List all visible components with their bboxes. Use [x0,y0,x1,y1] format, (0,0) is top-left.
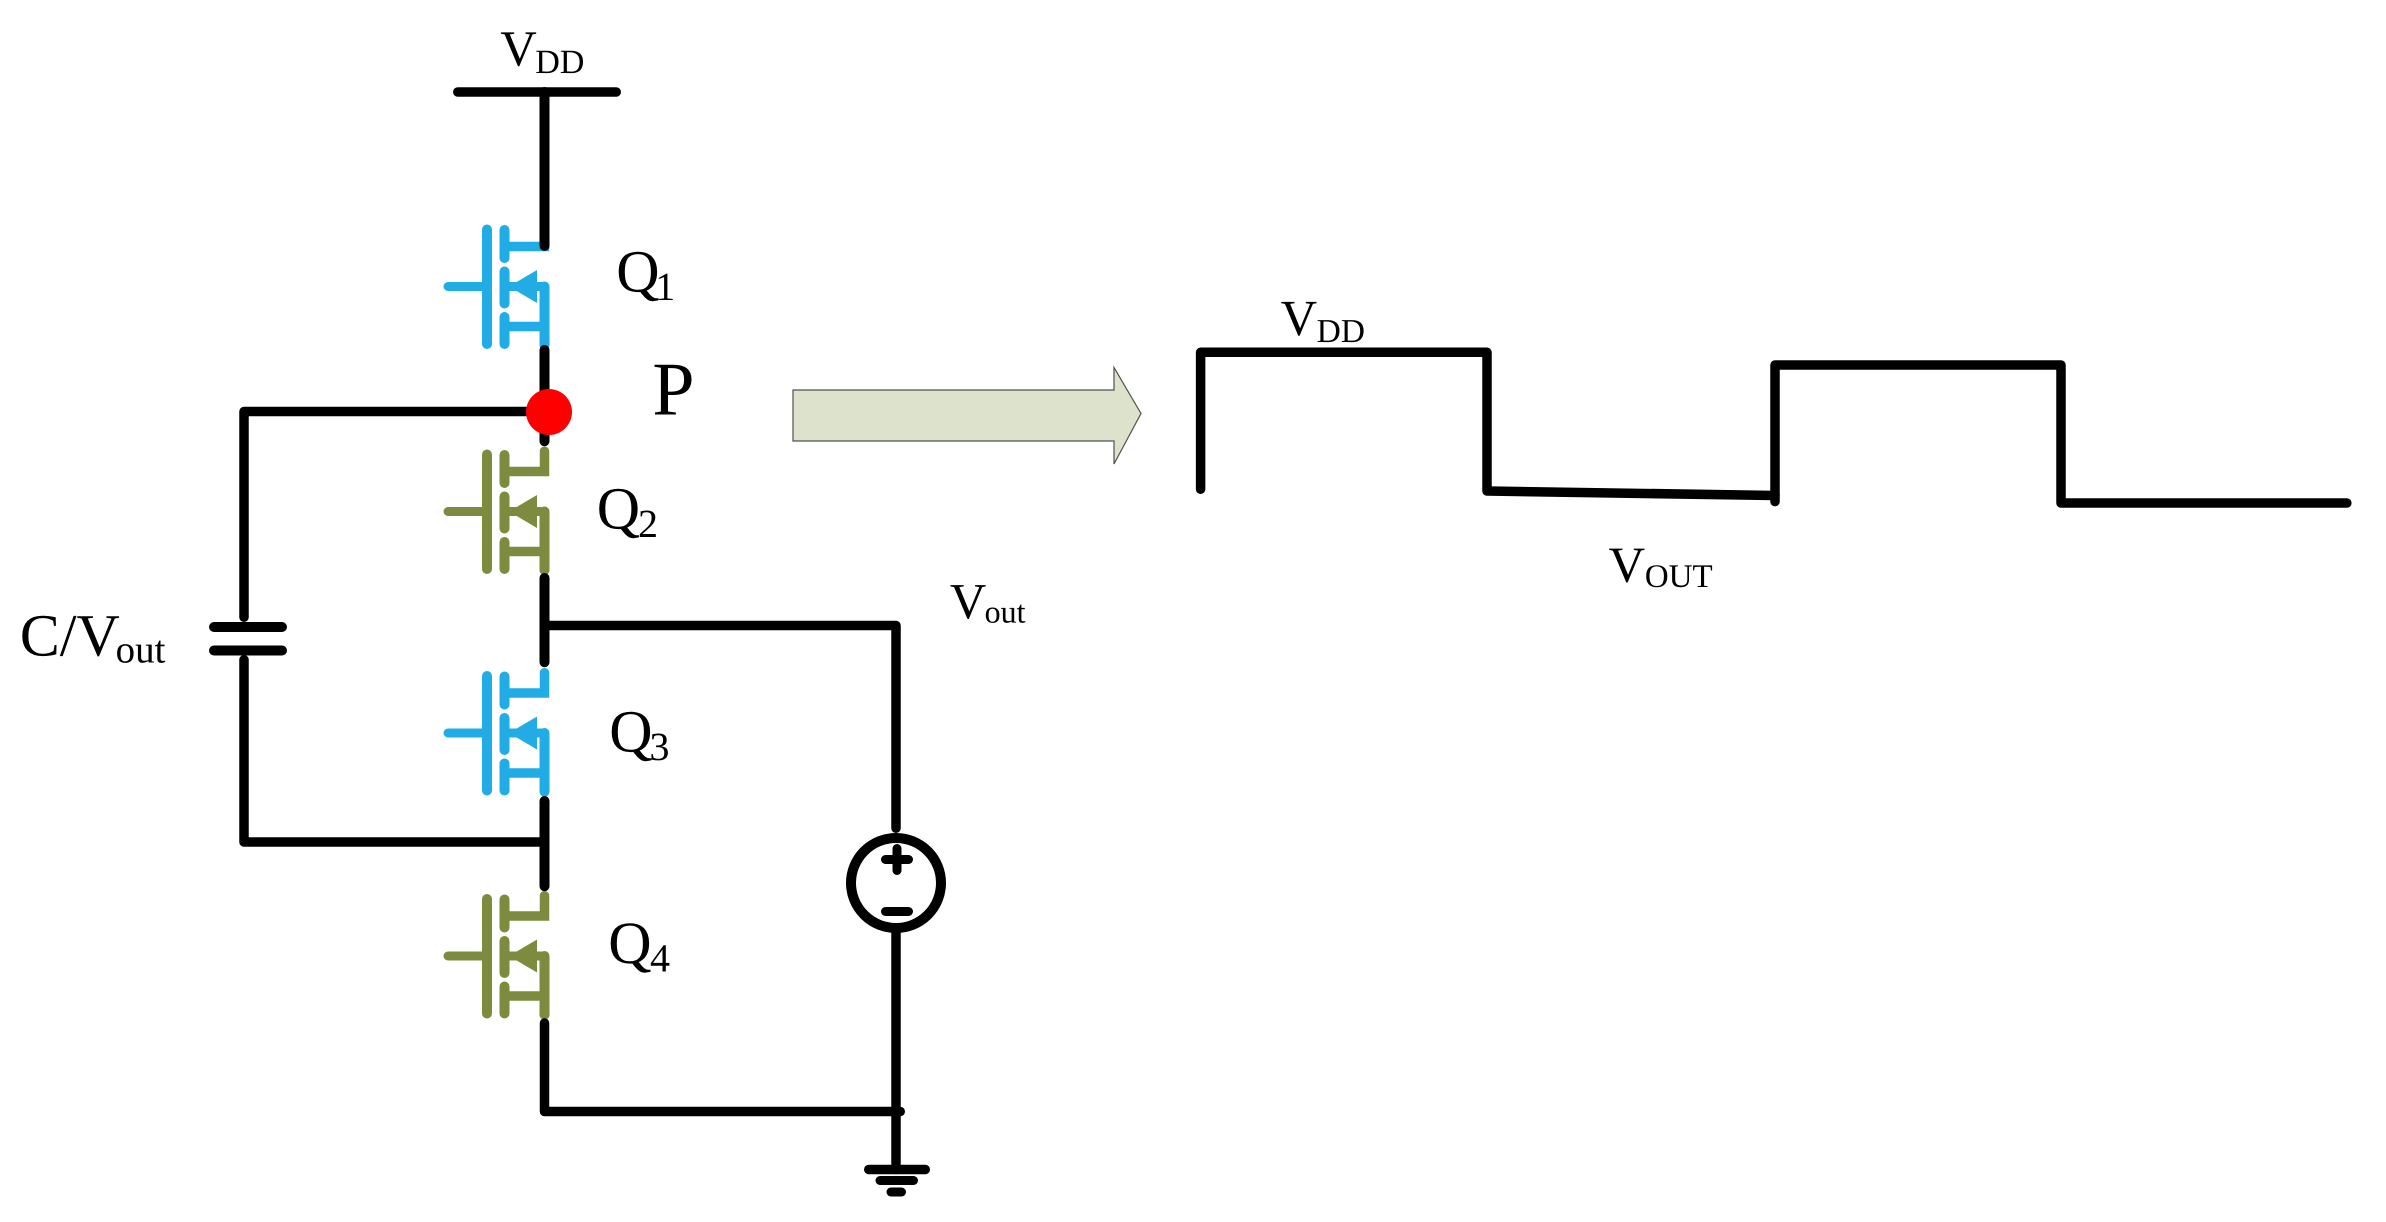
node P junction dot [526,389,572,435]
wire capacitor bottom to Q3/Q4 node [244,660,545,842]
power rail VDD [458,87,617,97]
label VDD supply [501,32,583,73]
capacitor C top plate [214,622,282,632]
label C/Vout [22,616,165,663]
waveform trace [1201,352,2347,503]
label VOUT waveform [1609,549,1712,588]
wire voltage source to bottom rail [891,933,901,1112]
block arrow [793,368,1141,465]
voltage source V1 [851,838,941,928]
label Q3 [612,712,668,761]
wire Q2 source to Q3 drain [540,578,550,662]
transistor Q4 (MOSFET) [448,896,545,1015]
ground symbol [869,1170,926,1193]
label VDD waveform [1281,302,1363,342]
capacitor C bottom plate [214,646,282,656]
wire Q3 source to Q4 drain [540,801,550,886]
label P [655,365,692,415]
transistor Q3 (MOSFET) [448,673,545,792]
wire node P to capacitor top [244,412,549,618]
label Vout circuit [950,585,1025,623]
transistor Q2 (MOSFET) [448,451,545,570]
wire VDD rail to Q1 drain [540,92,550,246]
wire Vout branch to voltage source [545,626,897,829]
wire Q1 source to Q2 drain (node P net) [540,350,550,441]
label Q4 [611,923,670,972]
wire ground stub [891,1112,901,1170]
label Q2 [599,489,656,538]
label Q1 [619,252,673,301]
transistor Q1 (MOSFET) [448,226,545,345]
wire Q4 source to bottom rail [545,1023,901,1112]
